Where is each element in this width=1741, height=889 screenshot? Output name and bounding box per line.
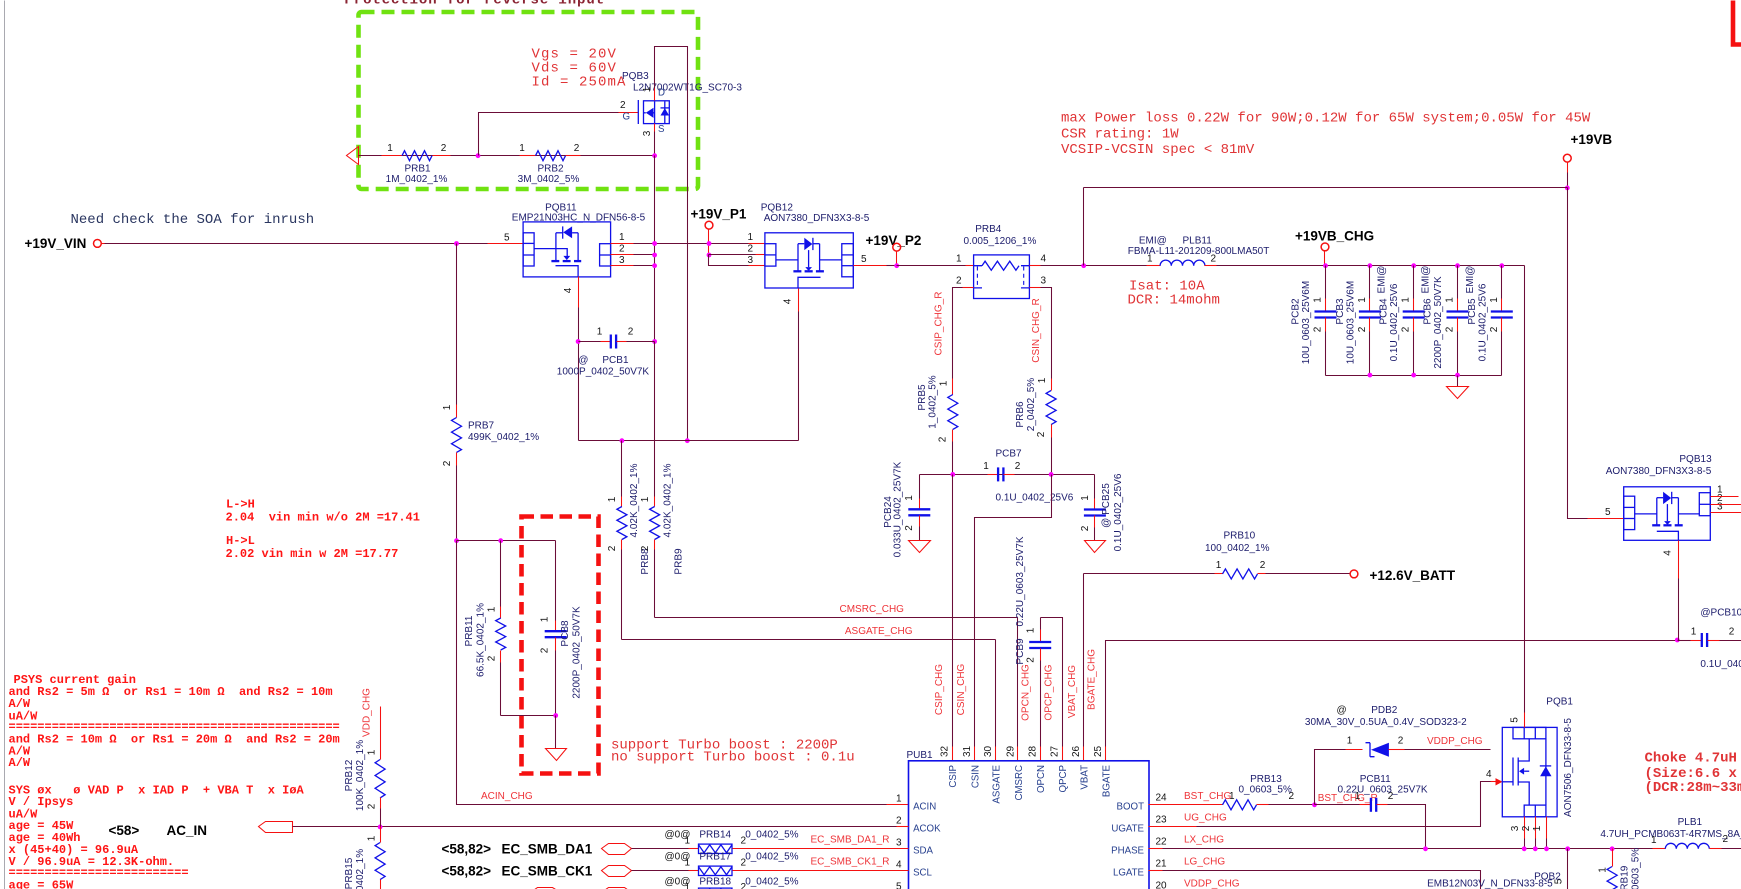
wire PQB3 source down bbox=[654, 124, 656, 132]
svg-text:2: 2 bbox=[628, 327, 634, 338]
svg-text:Choke 4.7uH: Choke 4.7uH bbox=[1645, 751, 1737, 767]
svg-text:21: 21 bbox=[1156, 858, 1168, 869]
svg-text:1: 1 bbox=[1598, 867, 1609, 873]
svg-text:PCB2: PCB2 bbox=[1291, 298, 1302, 325]
wire +19V_P1 to PQB12 pin2/pin3 bbox=[709, 254, 756, 256]
svg-text:PQB13: PQB13 bbox=[1679, 454, 1712, 465]
node: +19V_VIN / PRB7 branch bbox=[454, 241, 459, 246]
svg-text:(DCR:28m~33m: (DCR:28m~33m bbox=[1645, 780, 1741, 796]
svg-text:4.7UH_PCMB063T-4R7MS_8A_: 4.7UH_PCMB063T-4R7MS_8A_ bbox=[1600, 829, 1741, 840]
svg-text:28: 28 bbox=[1028, 745, 1039, 757]
svg-text:2: 2 bbox=[540, 647, 551, 653]
svg-text:EMI@: EMI@ bbox=[1421, 266, 1432, 294]
svg-text:27: 27 bbox=[1050, 745, 1061, 757]
wire PQB12 pin5 to +19V_P2 bbox=[854, 265, 887, 267]
svg-text:VCSIP-VCSIN spec < 81mV: VCSIP-VCSIN spec < 81mV bbox=[1061, 142, 1255, 158]
svg-text:25: 25 bbox=[1093, 745, 1104, 757]
svg-text:EMI@: EMI@ bbox=[1377, 266, 1388, 294]
svg-text:2: 2 bbox=[741, 882, 747, 889]
svg-text:PRB19: PRB19 bbox=[1619, 865, 1630, 889]
wire y540 branch bbox=[457, 540, 556, 542]
svg-text:CSIN_CHG: CSIN_CHG bbox=[956, 663, 967, 715]
svg-text:2: 2 bbox=[1026, 657, 1037, 663]
svg-text:1: 1 bbox=[896, 793, 902, 804]
svg-text:1: 1 bbox=[1691, 627, 1697, 638]
svg-text:20: 20 bbox=[1156, 880, 1168, 889]
svg-text:+19VB: +19VB bbox=[1571, 132, 1613, 147]
svg-text:5: 5 bbox=[896, 881, 902, 889]
svg-text:2: 2 bbox=[640, 545, 651, 551]
node: junction PRB1/PRB2 bbox=[476, 153, 481, 158]
svg-text:1: 1 bbox=[1401, 297, 1412, 303]
svg-text:VDDP_CHG: VDDP_CHG bbox=[1184, 879, 1240, 889]
resistor PRB2 bbox=[536, 151, 566, 161]
svg-text:0.1U_0402_25V6: 0.1U_0402_25V6 bbox=[1477, 283, 1488, 361]
svg-text:0.22U_0603_25V7K: 0.22U_0603_25V7K bbox=[1338, 785, 1428, 796]
svg-text:1: 1 bbox=[1037, 377, 1048, 383]
svg-text:EC_SMB_DA1: EC_SMB_DA1 bbox=[502, 841, 593, 856]
resistor PRB7 bbox=[442, 244, 539, 467]
svg-text:BST_CHG: BST_CHG bbox=[1184, 791, 1231, 802]
ground under PCB24 bbox=[909, 541, 931, 553]
capacitor PCB1 bbox=[557, 327, 657, 378]
svg-text:24: 24 bbox=[1156, 792, 1168, 803]
svg-text:1: 1 bbox=[939, 380, 950, 386]
svg-text:2: 2 bbox=[1260, 560, 1266, 571]
svg-text:2: 2 bbox=[1723, 834, 1729, 845]
svg-text:2: 2 bbox=[1080, 525, 1091, 531]
red dashed box (turbo boost cap) bbox=[522, 517, 599, 774]
svg-text:4: 4 bbox=[1041, 254, 1047, 265]
resistor PRB1 bbox=[402, 151, 432, 161]
wire BGATE vertical + horizontal bbox=[1106, 641, 1678, 747]
svg-text:2: 2 bbox=[1489, 326, 1500, 332]
svg-text:4.02K_0402_1%: 4.02K_0402_1% bbox=[629, 463, 640, 537]
svg-text:1: 1 bbox=[684, 858, 690, 869]
svg-text:@: @ bbox=[578, 355, 588, 366]
capacitor PCB7 bbox=[983, 449, 1074, 504]
svg-text:4: 4 bbox=[1663, 550, 1674, 556]
wire PRB1/PRB2 row bbox=[359, 155, 655, 157]
svg-text:ACIN: ACIN bbox=[913, 801, 936, 812]
svg-text:1: 1 bbox=[607, 496, 618, 502]
resistor PRB9 bbox=[640, 342, 685, 618]
svg-text:2_0402_5%: 2_0402_5% bbox=[1026, 378, 1037, 431]
svg-text:<58,82>: <58,82> bbox=[442, 841, 492, 856]
node dot PRB8 top bbox=[620, 438, 625, 443]
svg-text:1: 1 bbox=[983, 461, 989, 472]
svg-text:PUB1: PUB1 bbox=[907, 750, 934, 761]
capacitor PCB4 bbox=[1377, 263, 1425, 375]
svg-text:<58>: <58> bbox=[109, 823, 140, 838]
wire EC_SMB_DA1_R to SDA bbox=[733, 848, 909, 850]
svg-text:4: 4 bbox=[783, 298, 794, 304]
svg-text:VDD_CHG: VDD_CHG bbox=[362, 688, 373, 737]
svg-text:EMI@: EMI@ bbox=[1139, 236, 1167, 247]
svg-text:EC_SMB_CK1_R: EC_SMB_CK1_R bbox=[811, 857, 890, 868]
wire PQB3 drain hook bbox=[654, 89, 656, 101]
svg-text:0.005_1206_1%: 0.005_1206_1% bbox=[964, 236, 1037, 247]
svg-text:@ PCB25: @ PCB25 bbox=[1101, 483, 1112, 528]
svg-text:2: 2 bbox=[741, 858, 747, 869]
capacitor PCB3 bbox=[1335, 263, 1381, 375]
wire PQB2 drain vertical bbox=[1567, 849, 1569, 889]
svg-text:2: 2 bbox=[1401, 326, 1412, 332]
svg-text:G: G bbox=[623, 112, 631, 123]
svg-text:PCB3: PCB3 bbox=[1335, 298, 1346, 325]
svg-text:1: 1 bbox=[684, 836, 690, 847]
wire CSIP/CSIN cap row bbox=[920, 474, 1095, 476]
svg-text:H->L: H->L bbox=[226, 534, 255, 548]
svg-text:2: 2 bbox=[367, 803, 378, 809]
svg-text:2: 2 bbox=[1015, 461, 1021, 472]
svg-text:PCB9: PCB9 bbox=[1015, 638, 1026, 665]
svg-text:1: 1 bbox=[1445, 297, 1456, 303]
svg-text:66.5K_0402_1%: 66.5K_0402_1% bbox=[476, 603, 487, 677]
svg-text:1: 1 bbox=[1347, 736, 1353, 747]
svg-text:2: 2 bbox=[1036, 431, 1047, 437]
svg-text:5: 5 bbox=[504, 233, 510, 244]
svg-text:CSIN_CHG_R: CSIN_CHG_R bbox=[1031, 298, 1042, 362]
svg-text:PQB1: PQB1 bbox=[1546, 697, 1573, 708]
svg-text:1: 1 bbox=[904, 495, 915, 501]
svg-text:CSR rating: 1W: CSR rating: 1W bbox=[1061, 127, 1179, 143]
svg-text:PRB13: PRB13 bbox=[1250, 774, 1282, 785]
svg-text:0.033U_0402_25V7K: 0.033U_0402_25V7K bbox=[893, 461, 904, 557]
svg-text:VBAT_CHG: VBAT_CHG bbox=[1067, 665, 1078, 718]
svg-text:2.04 vin min w/o 2M =17.41: 2.04 vin min w/o 2M =17.41 bbox=[226, 511, 420, 525]
svg-text:no support Turbo boost : 0.1u: no support Turbo boost : 0.1u bbox=[611, 750, 855, 766]
svg-text:2: 2 bbox=[574, 143, 580, 154]
svg-text:PRB15: PRB15 bbox=[344, 857, 355, 889]
resistor PRB19 (partial) bbox=[1598, 848, 1642, 889]
svg-text:0_0402_5%: 0_0402_5% bbox=[745, 830, 798, 841]
svg-text:+19V_VIN: +19V_VIN bbox=[25, 236, 87, 251]
wire PQB1 pin5 from +19VB_CHG bbox=[1524, 713, 1526, 728]
svg-text:max Power loss 0.22W for 90W;0: max Power loss 0.22W for 90W;0.12W for 6… bbox=[1061, 111, 1591, 127]
svg-text:1: 1 bbox=[684, 882, 690, 889]
svg-text:2: 2 bbox=[487, 655, 498, 661]
resistor PRB12 bbox=[344, 707, 385, 827]
inductor PLB11 bbox=[1128, 236, 1270, 266]
svg-text:32: 32 bbox=[939, 745, 950, 757]
svg-text:A/W: A/W bbox=[9, 756, 31, 770]
svg-text:VBAT: VBAT bbox=[1080, 765, 1091, 790]
svg-text:1: 1 bbox=[367, 835, 378, 841]
wire CMSRC to pin29 bbox=[1017, 618, 1019, 747]
svg-text:30MA_30V_0.5UA_0.4V_SOD323-2: 30MA_30V_0.5UA_0.4V_SOD323-2 bbox=[1305, 717, 1467, 728]
svg-text:PRB11: PRB11 bbox=[464, 615, 475, 646]
svg-text:26: 26 bbox=[1071, 745, 1082, 757]
svg-text:1: 1 bbox=[640, 496, 651, 502]
svg-text:100K_0402_1%: 100K_0402_1% bbox=[355, 849, 366, 889]
svg-text:ASGATE: ASGATE bbox=[992, 764, 1003, 803]
wire ASGATE_CHG bbox=[622, 639, 996, 641]
svg-text:1: 1 bbox=[747, 232, 753, 243]
svg-text:1: 1 bbox=[1080, 495, 1091, 501]
svg-text:@PCB10: @PCB10 bbox=[1700, 608, 1741, 619]
wire cap bank bottom rail bbox=[1326, 375, 1502, 377]
svg-text:PRB18: PRB18 bbox=[699, 877, 731, 888]
svg-text:2: 2 bbox=[1521, 825, 1532, 831]
svg-text:2200P_0402_50V7K: 2200P_0402_50V7K bbox=[1433, 276, 1444, 369]
svg-text:PRB9: PRB9 bbox=[674, 548, 685, 575]
svg-text:1: 1 bbox=[1532, 825, 1543, 831]
resistor PRB15 bbox=[344, 827, 385, 889]
svg-text:PRB12: PRB12 bbox=[344, 759, 355, 791]
resistor PRB4 0.005 sense bbox=[956, 224, 1047, 299]
node dot PQB3-drain vertical end bbox=[685, 438, 690, 443]
svg-text:S: S bbox=[658, 124, 665, 135]
svg-text:5: 5 bbox=[1605, 507, 1611, 518]
node dots on PQB3-source vertical bbox=[652, 241, 657, 246]
svg-text:L->H: L->H bbox=[226, 498, 255, 512]
wire PQB12 pin4 down bbox=[798, 289, 800, 312]
capacitor PCB6 bbox=[1421, 263, 1469, 375]
wire PQB13 pins1-3 right bbox=[1711, 496, 1739, 498]
svg-text:0.1U_0402_25V6: 0.1U_0402_25V6 bbox=[996, 493, 1074, 504]
svg-text:LG_CHG: LG_CHG bbox=[1184, 857, 1225, 868]
svg-text:Protection for reverse input: Protection for reverse input bbox=[345, 0, 605, 9]
green dashed highlight box bbox=[359, 12, 699, 189]
svg-text:+19VB_CHG: +19VB_CHG bbox=[1295, 229, 1374, 244]
svg-text:5: 5 bbox=[861, 254, 867, 265]
svg-text:2200P_0402_50V7K: 2200P_0402_50V7K bbox=[572, 606, 583, 699]
svg-text:3: 3 bbox=[642, 130, 653, 136]
port hexagon partial bottom bbox=[602, 888, 632, 889]
svg-text:1: 1 bbox=[1313, 297, 1324, 303]
svg-text:BGATE_CHG: BGATE_CHG bbox=[1087, 649, 1098, 710]
wire ASGATE to pin30 bbox=[995, 640, 997, 747]
red frame corner top right bbox=[1733, 1, 1741, 45]
node: PRB2 out / PQB3 source bbox=[652, 153, 657, 158]
capacitor @PCB10 bbox=[1678, 608, 1741, 671]
svg-text:3: 3 bbox=[1717, 502, 1723, 513]
svg-text:@: @ bbox=[1337, 705, 1347, 716]
svg-text:4: 4 bbox=[896, 859, 902, 870]
svg-text:1: 1 bbox=[540, 616, 551, 622]
svg-text:1: 1 bbox=[619, 232, 625, 243]
capacitor PCB24 bbox=[883, 461, 930, 557]
capacitor PCB2 bbox=[1291, 263, 1337, 375]
resistor PRB14 bbox=[632, 848, 689, 850]
svg-text:1: 1 bbox=[1229, 791, 1235, 802]
svg-text:3: 3 bbox=[619, 255, 625, 266]
svg-text:1: 1 bbox=[956, 254, 962, 265]
svg-text:Id = 250mA: Id = 250mA bbox=[532, 75, 627, 91]
svg-text:PRB4: PRB4 bbox=[975, 224, 1002, 235]
wire bottom rail PQB11pin4 - PQB12pin4 bbox=[579, 440, 799, 442]
svg-text:2: 2 bbox=[904, 525, 915, 531]
svg-text:0.1U_0402_25V6: 0.1U_0402_25V6 bbox=[1113, 473, 1124, 551]
svg-text:2: 2 bbox=[1445, 326, 1456, 332]
svg-text:2: 2 bbox=[1398, 736, 1404, 747]
svg-text:EC_SMB_DA1_R: EC_SMB_DA1_R bbox=[811, 835, 890, 846]
svg-text:3: 3 bbox=[1510, 825, 1521, 831]
svg-text:UGATE: UGATE bbox=[1111, 823, 1144, 834]
svg-text:OPCP_CHG: OPCP_CHG bbox=[1043, 664, 1054, 720]
resistor PRB6 bbox=[1015, 377, 1056, 474]
wire PQB11 pin4 down bbox=[578, 277, 580, 308]
svg-text:10U_0603_25V6M: 10U_0603_25V6M bbox=[1345, 281, 1356, 364]
wire VBAT vertical bbox=[1083, 574, 1085, 747]
net +12.6V_BATT bbox=[1350, 570, 1358, 578]
transistor Q PQB3 L2N7002WT1G bbox=[620, 71, 742, 136]
ground under PCB8 bbox=[546, 749, 567, 761]
inductor PLB1 bbox=[1565, 817, 1741, 851]
transistor PQB12 AON7380_DFN3X3-8-5 bbox=[747, 203, 869, 305]
svg-text:<58,82>: <58,82> bbox=[442, 863, 492, 878]
wire to PRB4 bbox=[897, 265, 966, 267]
svg-text:1: 1 bbox=[1357, 297, 1368, 303]
svg-text:AC_IN: AC_IN bbox=[167, 823, 208, 838]
svg-text:D: D bbox=[658, 88, 665, 99]
transistor PQB11 EMP21N03HC_N_DFN56-8-5 bbox=[504, 203, 646, 294]
svg-text:2: 2 bbox=[747, 244, 753, 255]
svg-text:499K_0402_1%: 499K_0402_1% bbox=[468, 432, 539, 443]
transistor PQB1 AON7506_DFN33-8-5 bbox=[1502, 697, 1573, 817]
resistor PRB11 bbox=[464, 541, 506, 716]
svg-text:CSIP_CHG_R: CSIP_CHG_R bbox=[934, 292, 945, 356]
resistor PRB10 bbox=[1084, 531, 1351, 579]
svg-text:PRB7: PRB7 bbox=[468, 421, 495, 432]
svg-text:EC_SMB_CK1: EC_SMB_CK1 bbox=[502, 863, 593, 878]
svg-text:1: 1 bbox=[1216, 560, 1222, 571]
svg-text:PHASE: PHASE bbox=[1111, 845, 1144, 856]
transistor PQB13 AON7380_DFN3X3-8-5 bbox=[1605, 454, 1723, 556]
svg-text:3: 3 bbox=[896, 837, 902, 848]
svg-text:2: 2 bbox=[1729, 627, 1735, 638]
svg-text:AON7506_DFN33-8-5: AON7506_DFN33-8-5 bbox=[1563, 718, 1574, 817]
svg-text:CMSRC: CMSRC bbox=[1014, 765, 1025, 801]
svg-text:23: 23 bbox=[1156, 814, 1168, 825]
svg-text:1: 1 bbox=[487, 606, 498, 612]
svg-text:PLB1: PLB1 bbox=[1678, 817, 1703, 828]
svg-text:LGATE: LGATE bbox=[1113, 867, 1145, 878]
wire +19VB down to PQB13 pin5 bbox=[1568, 188, 1588, 519]
svg-text:QPCP: QPCP bbox=[1058, 765, 1069, 792]
svg-text:100_0402_1%: 100_0402_1% bbox=[1205, 543, 1270, 554]
svg-text:2: 2 bbox=[620, 100, 626, 111]
svg-text:1: 1 bbox=[367, 749, 378, 755]
svg-text:2: 2 bbox=[741, 836, 747, 847]
svg-text:1: 1 bbox=[1147, 254, 1153, 265]
svg-text:0_0603_5%: 0_0603_5% bbox=[1631, 848, 1642, 889]
svg-text:30: 30 bbox=[983, 745, 994, 757]
svg-text:0_0603_5%: 0_0603_5% bbox=[1239, 785, 1292, 796]
svg-text:and Rs2 = 5m Ω or Rs1 = 10m Ω: and Rs2 = 5m Ω or Rs1 = 10m Ω and Rs2 = … bbox=[9, 685, 333, 699]
svg-text:BGATE: BGATE bbox=[1102, 764, 1113, 797]
svg-text:1_0402_5%: 1_0402_5% bbox=[928, 375, 939, 428]
svg-text:2: 2 bbox=[1211, 254, 1217, 265]
wire PRB7 to ACIN bbox=[456, 466, 458, 541]
svg-text:0.1U_0402_25V6: 0.1U_0402_25V6 bbox=[1700, 659, 1741, 670]
svg-text:PCB5: PCB5 bbox=[1467, 298, 1478, 325]
ground cap bank bbox=[1457, 376, 1459, 387]
svg-text:SDA: SDA bbox=[913, 845, 933, 856]
svg-text:PCB6: PCB6 bbox=[1423, 298, 1434, 325]
wire PLB11 to cap bank rail bbox=[1217, 265, 1525, 267]
wire PQB11 pins 1-3 to vertical bbox=[611, 243, 634, 245]
svg-text:SCL: SCL bbox=[913, 867, 932, 878]
svg-text:PCB8: PCB8 bbox=[560, 620, 571, 647]
svg-text:31: 31 bbox=[962, 745, 973, 757]
svg-text:EMI@: EMI@ bbox=[1465, 266, 1476, 294]
svg-text:2: 2 bbox=[1313, 326, 1324, 332]
svg-text:3M_0402_5%: 3M_0402_5% bbox=[518, 174, 580, 185]
svg-text:PRB1: PRB1 bbox=[404, 164, 431, 175]
svg-text:5: 5 bbox=[1510, 717, 1521, 723]
svg-text:2: 2 bbox=[1357, 326, 1368, 332]
svg-text:2: 2 bbox=[938, 436, 949, 442]
svg-text:3: 3 bbox=[1041, 276, 1047, 287]
svg-text:2: 2 bbox=[619, 244, 625, 255]
svg-text:4: 4 bbox=[563, 287, 574, 293]
svg-text:CSIP_CHG: CSIP_CHG bbox=[934, 664, 945, 715]
input port arrow (left) bbox=[347, 147, 359, 165]
capacitor PCB9 + OPCN/OPCP bbox=[1015, 536, 1063, 760]
svg-text:Need check the SOA for inrush: Need check the SOA for inrush bbox=[71, 212, 315, 228]
wire EC_SMB_CK1_R to SCL bbox=[733, 870, 909, 872]
svg-text:1: 1 bbox=[1651, 835, 1657, 846]
sheet left border line bbox=[4, 1, 6, 889]
svg-text:ACIN_CHG: ACIN_CHG bbox=[481, 791, 533, 802]
svg-text:1: 1 bbox=[597, 327, 603, 338]
svg-text:0.1U_0402_25V6: 0.1U_0402_25V6 bbox=[1389, 283, 1400, 361]
svg-text:OPCN: OPCN bbox=[1036, 765, 1047, 793]
wire source vertical down to PCB1 bbox=[654, 156, 656, 342]
wire AC_IN to ACOK pin2 bbox=[293, 826, 897, 828]
svg-text:AON7380_DFN3X3-8-5: AON7380_DFN3X3-8-5 bbox=[764, 213, 870, 224]
svg-text:1: 1 bbox=[442, 404, 453, 410]
svg-text:2: 2 bbox=[607, 545, 618, 551]
svg-text:OPCN_CHG: OPCN_CHG bbox=[1021, 664, 1032, 721]
svg-text:1: 1 bbox=[1026, 627, 1037, 633]
svg-text:1: 1 bbox=[642, 86, 653, 92]
svg-text:EMB12N03V_N_DFN33-8-5: EMB12N03V_N_DFN33-8-5 bbox=[1427, 879, 1553, 889]
svg-text:age = 65W: age = 65W bbox=[9, 879, 75, 889]
svg-text:PRB5: PRB5 bbox=[917, 384, 928, 411]
svg-text:10U_0603_25V6M: 10U_0603_25V6M bbox=[1301, 281, 1312, 364]
svg-text:0_0402_5%: 0_0402_5% bbox=[745, 852, 798, 863]
ground under PCB25 bbox=[1085, 541, 1106, 553]
wire rail corner down to PQB1 pin5 bbox=[1524, 266, 1526, 713]
svg-text:PCB4: PCB4 bbox=[1379, 298, 1390, 325]
svg-text:+12.6V_BATT: +12.6V_BATT bbox=[1370, 568, 1456, 583]
wire PRB11/PCB8 bottom join bbox=[501, 715, 556, 717]
wire PRB4 pin3 to PRB6 (CSIN_CHG_R) bbox=[1030, 287, 1041, 289]
svg-text:PRB10: PRB10 bbox=[1224, 531, 1256, 542]
svg-text:DCR: 14mohm: DCR: 14mohm bbox=[1128, 293, 1220, 309]
svg-text:1: 1 bbox=[387, 143, 393, 154]
svg-text:2: 2 bbox=[442, 460, 453, 466]
svg-text:1000P_0402_50V7K: 1000P_0402_50V7K bbox=[557, 367, 650, 378]
wire +19VB horizontal bbox=[1084, 187, 1568, 189]
svg-text:PLB11: PLB11 bbox=[1183, 236, 1213, 247]
svg-text:and Rs2 = 10m Ω or Rs1 = 20m: and Rs2 = 10m Ω or Rs1 = 20m Ω and Rs2 =… bbox=[9, 733, 340, 747]
svg-text:VDDP_CHG: VDDP_CHG bbox=[1427, 736, 1483, 747]
wire CSIP_CHG vertical bbox=[952, 475, 954, 747]
svg-text:UG_CHG: UG_CHG bbox=[1184, 813, 1227, 824]
svg-text:PRB14: PRB14 bbox=[699, 830, 731, 841]
svg-text:22: 22 bbox=[1156, 836, 1168, 847]
wire PQB13 pin4 down bbox=[1678, 541, 1680, 579]
svg-text:PRB6: PRB6 bbox=[1015, 401, 1026, 428]
capacitor PCB25 bbox=[1080, 473, 1124, 551]
wire gate hook to PQB3 bbox=[479, 113, 619, 156]
svg-text:PCB11: PCB11 bbox=[1360, 774, 1391, 785]
svg-text:PRB2: PRB2 bbox=[537, 164, 564, 175]
